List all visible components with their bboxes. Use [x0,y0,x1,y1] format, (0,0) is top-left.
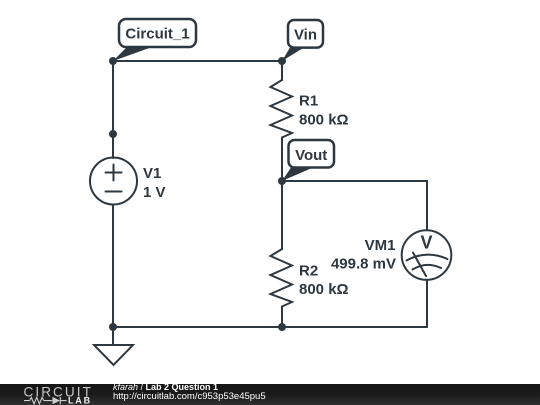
svg-text:R1: R1 [299,93,318,110]
svg-text:Circuit_1: Circuit_1 [125,26,189,43]
svg-text:V1: V1 [143,165,161,182]
ground symbol [94,327,133,365]
junction dot V1 top terminal [109,130,117,138]
wire left vertical lower (V1 bottom terminal to bottom rail) [112,205,114,328]
value label 1 V [143,184,166,201]
svg-text:LAB: LAB [68,395,92,405]
resistor R1 body [271,80,293,138]
svg-text:Vin: Vin [294,27,317,44]
svg-text:V: V [420,233,432,253]
label R1 [299,93,318,110]
svg-text:VM1: VM1 [365,237,396,254]
wire R1 top lead from node Vin [281,61,283,80]
svg-text:800 kΩ: 800 kΩ [299,111,349,128]
wire top horizontal from node Circuit_1 to node Vin [113,60,282,62]
junction dot bottom rail left [109,323,117,331]
junction dot bottom rail R2 [278,323,286,331]
wire voltmeter bottom lead [426,280,428,327]
svg-text:http://circuitlab.com/c953p53e: http://circuitlab.com/c953p53e45pu5 [113,391,266,402]
svg-text:R2: R2 [299,263,318,280]
junction dot node Vout [278,177,286,185]
svg-text:Vout: Vout [295,147,327,164]
wire left vertical upper (node to V1 top terminal) [112,61,114,158]
node flag Vout [282,140,334,181]
wire from node Vout to voltmeter branch [282,181,427,230]
label VM1 [365,237,396,254]
voltmeter VM1 symbol [402,230,452,280]
junction dot node Circuit_1 [109,57,117,65]
node flag Circuit_1 [113,19,196,61]
CircuitLab logo [24,384,93,405]
value label 499.8 mV [331,256,396,273]
wire bottom rail [113,326,427,328]
junction dot node Vin [278,57,286,65]
wire R2 bottom lead to bottom rail [281,307,283,328]
wire R2 top lead from node Vout [281,181,283,249]
voltmeter V letter [420,233,432,253]
voltage source V1 [90,158,137,205]
svg-text:499.8 mV: 499.8 mV [331,256,396,273]
label R2 [299,263,318,280]
label V1 [143,165,161,182]
resistor R2 body [271,249,293,307]
footer title text [113,382,266,402]
footer bar [0,384,540,405]
node flag Vin [282,20,323,61]
wire R1 bottom lead to node Vout [281,138,283,182]
svg-text:800 kΩ: 800 kΩ [299,281,349,298]
value label R2 800 kOhm [299,281,349,298]
value label R1 800 kOhm [299,111,349,128]
svg-text:1 V: 1 V [143,184,166,201]
